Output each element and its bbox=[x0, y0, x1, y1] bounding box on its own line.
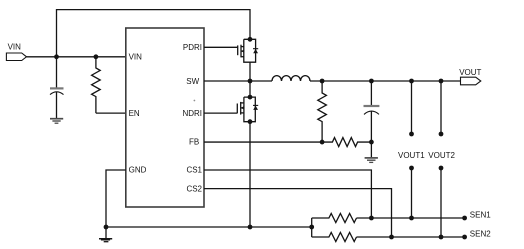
node junction VIN/R1 bbox=[94, 54, 99, 59]
node junction rail/C2 bbox=[369, 79, 374, 84]
svg-text:SW: SW bbox=[186, 77, 199, 86]
node junction VOUT2/SEN2 bbox=[439, 235, 444, 240]
node SW junction bbox=[248, 79, 253, 84]
node VOUT1 lower terminal bbox=[409, 166, 414, 171]
capacitor C2 (output) bbox=[364, 81, 380, 142]
wire SW to Q2 drain bbox=[249, 81, 251, 97]
node junction CS2/SEN2 bbox=[389, 235, 394, 240]
svg-text:VOUT1: VOUT1 bbox=[398, 151, 425, 160]
svg-text:VIN: VIN bbox=[8, 43, 22, 52]
node junction CS1/SEN1 bbox=[369, 216, 374, 221]
transistor Q2 (low-side NMOS) bbox=[237, 97, 258, 122]
ground (output) bbox=[365, 158, 378, 163]
inductor L1 bbox=[272, 76, 310, 81]
svg-text:SEN2: SEN2 bbox=[470, 230, 491, 239]
svg-text:VOUT2: VOUT2 bbox=[428, 151, 455, 160]
node junction R3/C2/ground bbox=[369, 140, 374, 145]
port tag VOUT bbox=[461, 77, 481, 85]
svg-text:GND: GND bbox=[129, 166, 147, 175]
node junction rail/VOUT1 stub bbox=[409, 79, 414, 84]
wire VOUT1 upper stub bbox=[411, 81, 413, 134]
resistor R5 (SEN2 sense) bbox=[312, 232, 357, 241]
node Q2 source bbox=[248, 119, 253, 124]
wire top supply rail to Q1 source bbox=[57, 10, 251, 57]
wire SEN2 line to terminal bbox=[357, 236, 465, 238]
wire GND pin to ground bbox=[106, 170, 126, 227]
svg-text:CS2: CS2 bbox=[186, 184, 202, 193]
node SEN2 terminal bbox=[462, 235, 467, 240]
wire SEN1 line to terminal bbox=[357, 217, 465, 219]
node junction ground-rail/sense bracket bbox=[309, 225, 314, 230]
wire bottom ground rail bbox=[106, 226, 312, 228]
node VOUT2 lower terminal bbox=[439, 166, 444, 171]
capacitor C1 (input) bbox=[50, 57, 64, 118]
stray dot mark bbox=[194, 100, 196, 102]
node junction VIN/top-rail/C1 bbox=[54, 54, 59, 59]
wire FB pin to divider bbox=[204, 141, 322, 143]
node VOUT1 upper terminal bbox=[409, 132, 414, 137]
wire Q2 source to ground rail bbox=[249, 122, 251, 227]
wire VOUT1 lower stub to SEN1 line bbox=[411, 168, 413, 218]
node junction VOUT1/SEN1 bbox=[409, 216, 414, 221]
node Q2 drain (SW side) bbox=[248, 95, 253, 100]
resistor R2 (divider upper, VOUT to FB) bbox=[318, 81, 327, 142]
resistor R1 (EN pull-up) bbox=[92, 57, 101, 113]
svg-text:VOUT: VOUT bbox=[459, 68, 481, 77]
transistor Q1 (high-side PMOS) bbox=[238, 39, 259, 62]
wire PDRI to Q1 gate bbox=[204, 46, 238, 48]
svg-text:CS1: CS1 bbox=[186, 166, 202, 175]
node junction rail/VOUT2 stub bbox=[439, 79, 444, 84]
node SEN1 terminal bbox=[462, 216, 467, 221]
svg-text:EN: EN bbox=[129, 109, 140, 118]
svg-text:NDRI: NDRI bbox=[182, 109, 202, 118]
port tag VIN bbox=[6, 53, 26, 61]
wire VOUT rail bbox=[310, 80, 461, 82]
wire VIN tag to IC VIN pin bbox=[27, 56, 126, 58]
wire VOUT2 lower stub to SEN2 line bbox=[440, 168, 442, 237]
node junction GND rail bbox=[104, 225, 109, 230]
resistor R4 (SEN1 sense) bbox=[312, 213, 357, 222]
ground (input cap) bbox=[50, 119, 63, 124]
ground (GND pin) bbox=[99, 227, 112, 242]
wire sense bracket bbox=[311, 218, 313, 237]
wire NDRI to Q2 gate bbox=[204, 112, 237, 114]
wire VOUT2 upper stub bbox=[440, 81, 442, 134]
wire Q1 to SW node bbox=[249, 62, 251, 81]
wire CS1 pin to SEN1 line bbox=[204, 170, 371, 218]
wire CS2 pin to SEN2 line bbox=[204, 189, 392, 237]
wire R1 to EN pin bbox=[96, 112, 126, 114]
IC U1 (converter controller) bbox=[126, 28, 204, 207]
node junction Q2/ground rail bbox=[248, 225, 253, 230]
svg-text:PDRI: PDRI bbox=[183, 43, 202, 52]
node VOUT2 upper terminal bbox=[439, 132, 444, 137]
node Q1 drain top bbox=[248, 37, 253, 42]
node FB junction bbox=[320, 140, 325, 145]
node junction rail/R2 bbox=[320, 79, 325, 84]
svg-text:VIN: VIN bbox=[129, 53, 143, 62]
resistor R3 (FB to ground) bbox=[322, 138, 371, 147]
svg-text:SEN1: SEN1 bbox=[470, 210, 491, 219]
wire SW pin to inductor bbox=[204, 80, 272, 82]
wire C2 node to ground bbox=[370, 142, 372, 157]
svg-text:FB: FB bbox=[189, 138, 199, 147]
